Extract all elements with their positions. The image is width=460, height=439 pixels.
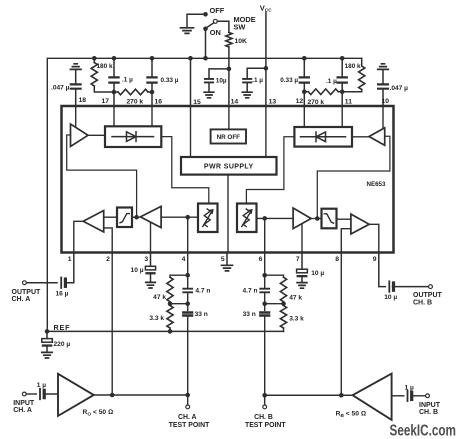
svg-text:TEST POINT: TEST POINT	[169, 422, 210, 429]
block PWR SUPPLY	[181, 157, 277, 175]
wire B1 input from diode box	[352, 136, 369, 138]
amplifier B1 top-right	[369, 128, 385, 146]
amplifier Q-B power amp	[353, 374, 392, 420]
svg-text:1 µ: 1 µ	[405, 385, 414, 392]
amplifier A3 output left	[83, 211, 104, 233]
wire pin15 vertical	[190, 58, 192, 106]
svg-text:9: 9	[373, 256, 377, 263]
svg-text:TEST POINT: TEST POINT	[245, 422, 286, 429]
resistor 270k left	[118, 89, 148, 95]
amplifier A1 top-left	[71, 124, 89, 147]
wire pin1 to output cap	[66, 253, 74, 283]
capacitor 10u at pin3	[150, 253, 152, 267]
wire amp A output line	[94, 394, 188, 396]
svg-text:ON: ON	[210, 28, 221, 37]
wire amp B output line	[265, 394, 353, 396]
svg-text:13: 13	[269, 99, 277, 106]
capacitor .1u at Vcc	[247, 68, 266, 78]
node left S-box junction	[134, 215, 139, 220]
switch ON terminal	[203, 27, 208, 32]
wire A3 lower to pin2	[104, 228, 113, 253]
wire S-box right to B3	[337, 218, 351, 220]
svg-text:4: 4	[182, 256, 186, 263]
wire pin16 into diode box	[151, 106, 153, 126]
capacitor 220u at REF	[46, 331, 48, 338]
resistor 3.3k right	[280, 306, 286, 328]
wire top supply rail with left drop to REF	[47, 58, 361, 331]
capacitor 16u output A	[60, 277, 62, 288]
resistor 47k left	[170, 275, 188, 277]
wire pin4 vertical chain	[187, 253, 189, 396]
wire pin14 vertical	[228, 69, 230, 106]
shaper box right	[322, 209, 337, 229]
resistor 180k right	[361, 58, 363, 66]
wire diode box to attenuator control left	[161, 137, 209, 204]
amplifier B2 mid-right	[293, 208, 311, 229]
capacitor 0.33u right	[300, 77, 309, 82]
amplifier A2 mid-left	[140, 206, 161, 227]
wire B3 output to pin9	[369, 224, 379, 252]
svg-text:47 k: 47 k	[289, 295, 302, 302]
wire pin2 to amp A output	[111, 253, 113, 396]
limiter U1a diode box left	[105, 126, 161, 147]
ground at switch	[181, 28, 194, 34]
wire pin6 drop inside IC	[264, 218, 266, 252]
capacitor .047u right with top ground	[378, 64, 389, 70]
op-amp IC NE653 outline	[62, 106, 394, 253]
capacitor 4.7n right	[260, 289, 269, 293]
wire S-box left to A3	[104, 216, 117, 218]
capacitor 1u input A	[39, 389, 41, 400]
wire REF line	[47, 330, 284, 332]
svg-text:16: 16	[155, 98, 163, 105]
svg-text:SeekIC.com: SeekIC.com	[390, 422, 457, 439]
wire pin12 into diode box	[303, 106, 305, 127]
svg-text:CH. B: CH. B	[413, 300, 432, 307]
svg-text:PWR SUPPLY: PWR SUPPLY	[204, 164, 254, 171]
svg-text:SW: SW	[234, 22, 246, 31]
wire pin10 into B1	[382, 106, 384, 129]
svg-text:CH. A: CH. A	[12, 296, 31, 303]
svg-text:1 µ: 1 µ	[37, 382, 46, 389]
wire output B to terminal	[393, 286, 429, 288]
capacitor 10u at pin14	[209, 69, 229, 78]
capacitor .1u left	[109, 77, 118, 82]
svg-text:270 k: 270 k	[127, 98, 144, 105]
wire signal line left to attenuator	[161, 216, 198, 218]
svg-text:180 k: 180 k	[97, 63, 113, 70]
svg-text:.1 µ: .1 µ	[326, 78, 337, 85]
wire test point A stub	[187, 395, 189, 405]
svg-text:10 µ: 10 µ	[384, 294, 397, 301]
wire pin11 into diode box	[341, 106, 343, 127]
capacitor 33n left	[183, 313, 192, 316]
svg-text:8: 8	[335, 256, 339, 263]
node right S-box junction	[315, 216, 320, 221]
capacitor 10u at pin7	[301, 253, 303, 270]
svg-text:NR OFF: NR OFF	[217, 134, 241, 141]
svg-text:47 k: 47 k	[153, 294, 166, 301]
capacitor 4.7n left	[183, 289, 192, 293]
svg-text:5: 5	[221, 256, 225, 263]
capacitor 1u input B	[407, 391, 409, 402]
switch arm	[207, 23, 214, 28]
wire 1u B to terminal	[411, 395, 426, 397]
svg-text:17: 17	[101, 98, 109, 105]
svg-text:0.33 µ: 0.33 µ	[280, 77, 298, 84]
svg-text:10K: 10K	[235, 38, 248, 45]
resistor 47k right	[265, 275, 284, 277]
wire pin3 from A2 slope	[150, 222, 152, 252]
wire pin18 into A1	[75, 106, 77, 127]
wire pin16 vertical	[151, 58, 153, 106]
terminal INPUT CH A	[22, 392, 26, 396]
switch pole circle	[213, 19, 217, 23]
capacitor .047u left (pin 18) with top ground	[70, 64, 81, 70]
wire pin14 into NR OFF	[228, 106, 230, 129]
svg-text:.047 µ: .047 µ	[390, 85, 409, 92]
svg-text:220 µ: 220 µ	[54, 341, 71, 348]
svg-text:10: 10	[382, 98, 390, 105]
wire diode box to attenuator control right	[246, 137, 294, 204]
svg-text:12: 12	[296, 98, 304, 105]
attenuator U1b left	[198, 204, 218, 233]
resistor 10K	[217, 21, 229, 32]
svg-text:1: 1	[68, 256, 72, 263]
ground at pin5	[226, 253, 228, 265]
svg-text:CH. B: CH. B	[419, 409, 438, 416]
svg-text:10µ: 10µ	[216, 77, 227, 84]
wire pin9 to output cap	[379, 253, 386, 287]
wire pin4 drop inside IC	[187, 217, 189, 252]
wire test point B stub	[264, 395, 266, 405]
wire pin13 into PWR SUPPLY	[265, 106, 267, 157]
resistor 3.3k left	[167, 306, 173, 328]
svg-text:NE653: NE653	[367, 181, 386, 188]
capacitor .1u right	[338, 77, 347, 82]
attenuator U1d right	[237, 204, 257, 233]
svg-text:.047 µ: .047 µ	[51, 85, 70, 92]
wire pin11 vertical	[341, 58, 343, 106]
svg-text:INPUT: INPUT	[13, 400, 35, 407]
wire PWR SUPPLY to pin 5	[227, 175, 229, 253]
svg-text:180 k: 180 k	[345, 63, 361, 70]
wire A1 output	[88, 134, 105, 136]
wire 1u to amp A	[43, 393, 58, 395]
wire A1 feedback to node	[67, 135, 137, 215]
mode switch OFF terminal	[203, 12, 208, 17]
wire B1 feedback to node	[317, 136, 390, 216]
svg-text:OUTPUT: OUTPUT	[413, 292, 443, 299]
resistor 180k left	[93, 58, 95, 62]
amplifier Q-A power amp	[58, 374, 94, 416]
svg-text:11: 11	[345, 98, 352, 105]
node REF junction	[45, 329, 50, 334]
wire pin7 from B2 slope	[301, 224, 303, 253]
svg-text:6: 6	[259, 256, 263, 263]
wire pin6 vertical chain	[264, 253, 266, 396]
wire pin12 vertical	[303, 58, 305, 106]
svg-text:OUTPUT: OUTPUT	[12, 289, 42, 296]
resistor 270k right	[308, 89, 338, 95]
svg-text:4.7 n: 4.7 n	[195, 287, 210, 294]
svg-text:2: 2	[106, 256, 110, 263]
svg-text:CH. A: CH. A	[178, 414, 197, 421]
wire B3 lower to pin8	[341, 229, 351, 253]
svg-text:.1 µ: .1 µ	[122, 76, 133, 83]
capacitor 33n right	[260, 313, 269, 316]
svg-text:7: 7	[296, 256, 300, 263]
svg-text:16 µ: 16 µ	[56, 290, 69, 297]
svg-text:18: 18	[79, 97, 87, 104]
capacitor 10u output B	[388, 281, 390, 292]
svg-text:33 n: 33 n	[243, 311, 256, 318]
svg-text:3: 3	[144, 256, 148, 263]
svg-text:10 µ: 10 µ	[311, 270, 324, 277]
svg-text:3.3 k: 3.3 k	[149, 315, 164, 322]
wire pin17 into diode box	[113, 106, 115, 126]
svg-text:3.3 k: 3.3 k	[289, 316, 304, 323]
svg-text:.1 µ: .1 µ	[252, 77, 263, 84]
amplifier B3 output right	[351, 214, 369, 234]
svg-text:0.33 µ: 0.33 µ	[161, 77, 179, 84]
limiter U1c diode box right	[294, 127, 352, 147]
svg-text:CH. B: CH. B	[254, 414, 273, 421]
svg-text:4.7 n: 4.7 n	[242, 287, 257, 294]
wire amp B input	[392, 395, 404, 397]
block NR OFF	[211, 129, 246, 143]
svg-text:OFF: OFF	[210, 6, 225, 15]
shaper box left	[117, 208, 132, 228]
wire pin8 to amp B output	[340, 253, 342, 396]
wire A3 output to pin1	[74, 221, 83, 252]
svg-text:14: 14	[231, 99, 239, 106]
svg-text:INPUT: INPUT	[419, 402, 441, 409]
svg-text:CH. A: CH. A	[13, 407, 32, 414]
wire output A to terminal	[26, 282, 57, 284]
svg-text:10 µ: 10 µ	[131, 267, 144, 274]
wire pin15 into PWR SUPPLY	[190, 106, 192, 157]
wire pin17 vertical	[113, 58, 115, 106]
wire attenuator right to signal line	[257, 217, 294, 219]
svg-text:33 n: 33 n	[195, 311, 208, 318]
capacitor 0.33u left	[147, 77, 156, 82]
svg-text:REF: REF	[54, 323, 71, 332]
